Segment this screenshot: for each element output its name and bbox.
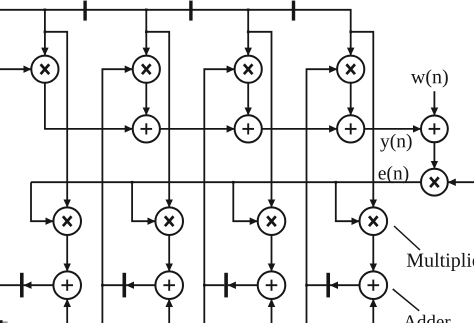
- adder S3 (filter sum): [337, 115, 364, 142]
- multiplier XE (error scaling): [421, 169, 448, 196]
- wire: delayed weight w1 feedback up into adder SU2: [168, 299, 170, 323]
- adder SU3 (weight accumulator): [258, 271, 286, 299]
- wire: tap 1 signal routed down to update multiplier XU1: [45, 32, 67, 208]
- wire: delayed weight w3 joins feedback vertical: [307, 284, 327, 286]
- multiplier X2 (tap 2 weight multiply): [133, 56, 160, 83]
- multiplier XU4 (weight update multiply): [360, 207, 388, 235]
- wire: X3 output down into adder S2: [247, 83, 249, 116]
- wire: delayed weight w2 feedback up into adder SU3: [271, 299, 273, 323]
- wire: X2 output down into adder S1: [145, 83, 147, 116]
- delay element ZW3 (weight update delay tick): [224, 273, 228, 298]
- wire: tap 3 signal routed down to update multiplier XU3: [248, 32, 271, 208]
- label Adder (clipped at bottom): [403, 315, 450, 323]
- wire: desired signal w(n) down into error adder SE: [433, 91, 435, 115]
- wire: delayed weight w0 feedback up into adder SU1: [66, 299, 68, 323]
- wire: tap 2 signal routed down to update multiplier XU2: [146, 32, 169, 208]
- adder SU4 (weight accumulator): [360, 271, 388, 299]
- wire: input delay line x(n), turns down into multiplier X4: [0, 10, 351, 56]
- adder SU1 (weight accumulator): [53, 271, 81, 299]
- wire: XU2 output down into accumulator adder SU2: [168, 235, 170, 271]
- wire: adder S3 output y(n) into error adder SE: [364, 128, 421, 130]
- delay element ZW2 (weight update delay tick): [123, 273, 127, 298]
- multiplier XU3 (weight update multiply): [258, 207, 286, 235]
- junction: tap 3 branch point: [247, 31, 250, 34]
- wire: SU3 output left into weight delay ZW3: [228, 284, 258, 286]
- junction: e(n) bus tap 3: [232, 181, 235, 184]
- wire: SU2 output left into weight delay ZW2: [126, 284, 155, 286]
- junction: tap 2 on delay line: [145, 9, 148, 12]
- junction: tap 4 branch point: [349, 31, 352, 34]
- junction: weight w2 feedback node: [203, 284, 206, 287]
- label w(n): [411, 69, 448, 87]
- wire: e(n) drop into update multiplier XU2: [132, 182, 155, 221]
- junction: tap 1 on delay line: [44, 9, 47, 12]
- multiplier X1 (tap 1 weight multiply): [31, 56, 58, 83]
- delay element ZW1 (weight update delay tick): [20, 273, 24, 298]
- wire: XU4 output down into accumulator adder SU4: [372, 235, 374, 271]
- wire: e(n) drop into update multiplier XU1: [31, 182, 53, 221]
- wire: e(n) drop into update multiplier XU3: [233, 182, 257, 221]
- multiplier XU1 (weight update multiply): [53, 207, 81, 235]
- wire: adder S2 output into adder S3: [262, 128, 337, 130]
- wire: e(n) drop into update multiplier XU4: [336, 182, 360, 221]
- junction: weight w3 feedback node: [305, 284, 308, 287]
- wire: step-size input from right edge into multiplier XE: [448, 181, 474, 183]
- wire: X4 output down into adder S3: [350, 83, 352, 116]
- wire: error e(n) from adder SE down into multiplier XE: [433, 142, 435, 169]
- multiplier XU2 (weight update multiply): [155, 207, 183, 235]
- wire: e(n) feedback bus running left: [31, 181, 421, 183]
- wire: delayed weight w1 joins feedback vertical: [102, 284, 122, 286]
- wire: weight w0 input from left into multiplier X1: [0, 68, 31, 70]
- wire: tap 3 down into multiplier X3: [247, 10, 249, 56]
- junction: tap 1 branch point: [44, 31, 47, 34]
- adder S1 (filter sum): [133, 115, 160, 142]
- cropped text fragment at bottom-left corner: [0, 320, 3, 323]
- label y(n): [380, 134, 411, 152]
- label Multiplier: [407, 253, 474, 271]
- wire: X1 output down and right into adder S1: [45, 83, 133, 129]
- wire: delayed weight w3 feedback up into adder SU4: [372, 299, 374, 323]
- wire: adder S1 output into adder S2: [160, 128, 235, 130]
- delay element ZW4 (weight update delay tick): [326, 273, 330, 298]
- wire: SU1 output left into weight delay ZW1: [24, 284, 54, 286]
- callout line to Adder label: [393, 289, 420, 311]
- junction: e(n) bus tap 2: [131, 181, 134, 184]
- junction: e(n) bus tap 4: [335, 181, 338, 184]
- wire: weight w3 rises from accumulator row up into multiplier X4: [307, 69, 338, 323]
- delay element Z2 (tick on delay line): [189, 1, 192, 21]
- adder S2 (filter sum): [235, 115, 262, 142]
- wire: tap 1 down into multiplier X1: [44, 10, 46, 56]
- multiplier X3 (tap 3 weight multiply): [235, 56, 262, 83]
- wire: weight w1 rises from accumulator row up into multiplier X2: [102, 69, 132, 323]
- junction: tap 3 on delay line: [247, 9, 250, 12]
- label e(n): [379, 166, 409, 184]
- wire: tap 4 signal routed down to update multiplier XU4: [351, 32, 374, 208]
- junction: weight w1 feedback node: [101, 284, 104, 287]
- delay element Z3 (tick on delay line): [292, 1, 295, 21]
- callout line to Multiplier label: [394, 226, 420, 250]
- wire: SU4 output left into weight delay ZW4: [330, 284, 360, 286]
- junction: tap 2 branch point: [145, 31, 148, 34]
- wire: weight w0 continues off left edge: [0, 284, 20, 286]
- wire: delayed weight w2 joins feedback vertical: [204, 284, 224, 286]
- wire: XU1 output down into accumulator adder SU1: [66, 235, 68, 271]
- adder SU2 (weight accumulator): [155, 271, 183, 299]
- delay element Z1 (tick on delay line): [83, 1, 86, 21]
- wire: XU3 output down into accumulator adder SU3: [271, 235, 273, 271]
- wire: weight w2 rises from accumulator row up into multiplier X3: [204, 69, 234, 323]
- adder SE (error summer): [421, 115, 448, 142]
- wire: tap 2 down into multiplier X2: [145, 10, 147, 56]
- multiplier X4 (tap 4 weight multiply): [337, 56, 364, 83]
